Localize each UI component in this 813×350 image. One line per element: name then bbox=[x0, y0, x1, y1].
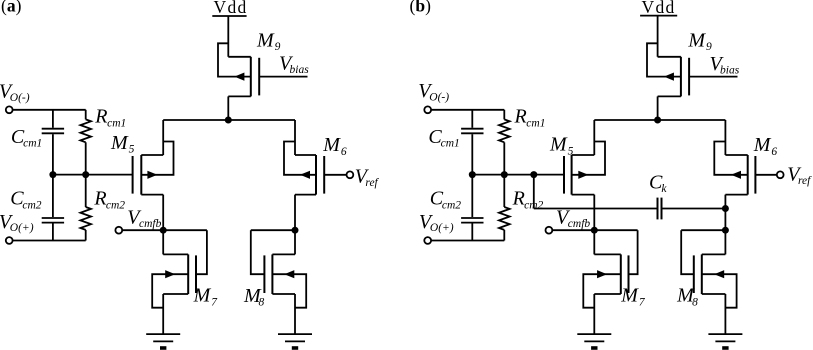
svg-text:M: M bbox=[549, 134, 568, 156]
svg-text:cmfb: cmfb bbox=[139, 218, 162, 230]
svg-text:cm1: cm1 bbox=[441, 137, 460, 149]
svg-text:6: 6 bbox=[771, 146, 777, 158]
svg-text:6: 6 bbox=[341, 146, 347, 158]
svg-text:(a): (a) bbox=[1, 0, 22, 15]
svg-text:cm1: cm1 bbox=[526, 117, 545, 129]
svg-text:Vdd: Vdd bbox=[642, 0, 676, 17]
svg-text:cmfb: cmfb bbox=[568, 218, 591, 230]
svg-text:cm2: cm2 bbox=[524, 199, 543, 211]
svg-text:8: 8 bbox=[259, 297, 265, 309]
svg-text:R: R bbox=[93, 187, 106, 209]
svg-text:5: 5 bbox=[129, 144, 135, 156]
svg-text:bias: bias bbox=[290, 64, 310, 76]
svg-text:O(+): O(+) bbox=[430, 222, 454, 234]
svg-text:cm2: cm2 bbox=[106, 199, 125, 211]
svg-text:cm2: cm2 bbox=[22, 199, 41, 211]
svg-text:R: R bbox=[512, 187, 525, 209]
svg-text:ref: ref bbox=[798, 175, 812, 187]
svg-text:O(-): O(-) bbox=[10, 92, 30, 104]
svg-text:9: 9 bbox=[706, 41, 712, 53]
svg-text:cm1: cm1 bbox=[107, 117, 126, 129]
svg-text:O(-): O(-) bbox=[429, 91, 449, 103]
svg-text:k: k bbox=[661, 183, 667, 195]
svg-text:(b): (b) bbox=[410, 0, 432, 15]
svg-text:5: 5 bbox=[568, 145, 574, 157]
svg-text:M: M bbox=[687, 29, 706, 51]
svg-text:R: R bbox=[514, 105, 527, 127]
svg-text:M: M bbox=[256, 29, 275, 51]
svg-text:M: M bbox=[193, 285, 212, 307]
svg-text:M: M bbox=[753, 134, 772, 156]
svg-text:O(+): O(+) bbox=[10, 222, 34, 234]
svg-text:cm1: cm1 bbox=[23, 137, 42, 149]
svg-text:M: M bbox=[620, 285, 639, 307]
svg-text:ref: ref bbox=[365, 177, 379, 189]
svg-text:Vdd: Vdd bbox=[214, 0, 248, 17]
svg-text:M: M bbox=[110, 132, 129, 154]
svg-text:8: 8 bbox=[692, 296, 698, 308]
svg-text:R: R bbox=[94, 105, 107, 127]
svg-text:9: 9 bbox=[275, 41, 281, 53]
svg-text:bias: bias bbox=[720, 64, 740, 76]
svg-text:M: M bbox=[322, 134, 341, 156]
svg-text:cm2: cm2 bbox=[442, 199, 461, 211]
